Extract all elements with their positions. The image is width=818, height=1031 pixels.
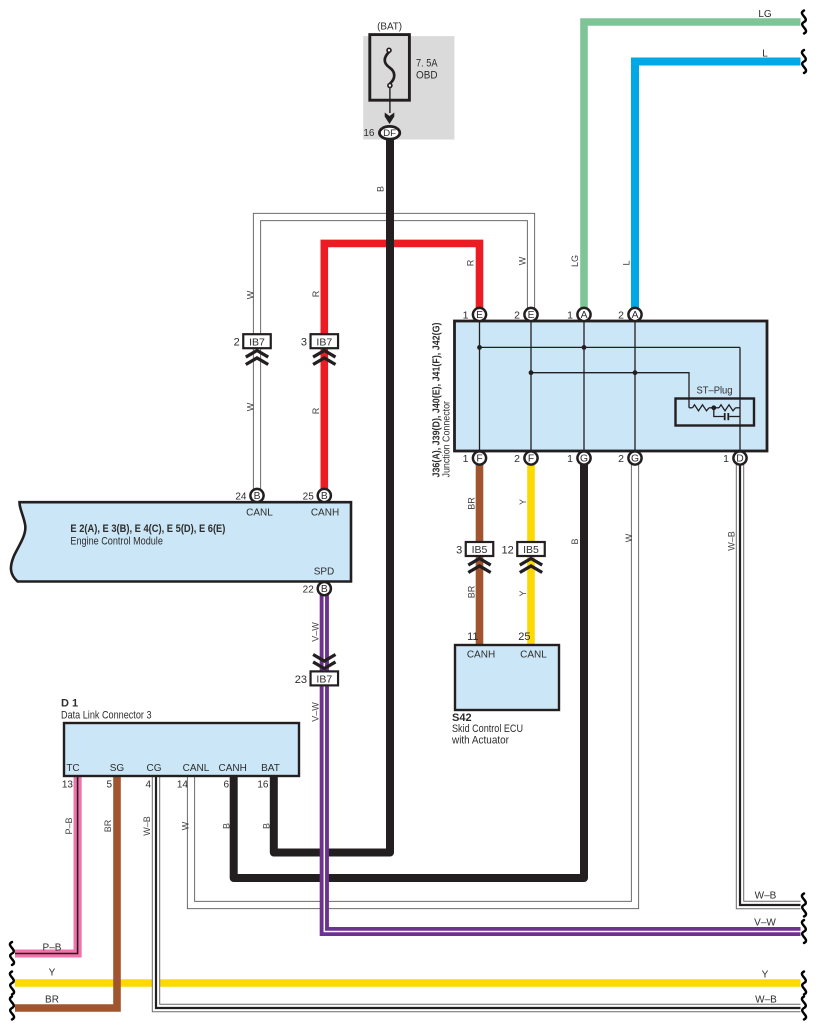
svg-text:W–B: W–B (142, 816, 152, 836)
svg-text:W: W (245, 402, 255, 411)
svg-text:6: 6 (223, 780, 229, 791)
svg-text:16: 16 (257, 780, 269, 791)
svg-text:E: E (528, 310, 535, 321)
svg-text:D: D (736, 453, 743, 464)
svg-text:2: 2 (514, 453, 520, 465)
svg-text:IB5: IB5 (472, 544, 488, 556)
svg-text:G: G (580, 453, 588, 464)
svg-text:W–B: W–B (726, 531, 736, 551)
svg-text:Y: Y (49, 968, 56, 979)
svg-text:V–W: V–W (310, 622, 320, 642)
svg-text:BR: BR (45, 995, 59, 1006)
svg-text:Skid Control ECU: Skid Control ECU (452, 723, 523, 735)
svg-text:CANH: CANH (311, 508, 339, 519)
svg-text:LG: LG (758, 9, 772, 20)
svg-text:D 1: D 1 (61, 698, 78, 710)
svg-text:CANL: CANL (246, 508, 273, 519)
svg-text:W–B: W–B (755, 891, 777, 902)
svg-text:B: B (570, 538, 580, 544)
svg-text:P–B: P–B (64, 817, 74, 834)
svg-text:2: 2 (514, 310, 520, 322)
svg-text:R: R (311, 290, 321, 297)
svg-text:IB5: IB5 (523, 544, 539, 556)
svg-text:16: 16 (363, 128, 375, 139)
svg-text:B: B (321, 584, 328, 595)
svg-text:B: B (375, 186, 385, 192)
svg-text:12: 12 (502, 544, 514, 556)
svg-text:BR: BR (466, 585, 476, 598)
svg-text:IB7: IB7 (316, 336, 332, 348)
svg-text:1: 1 (723, 453, 729, 465)
svg-text:CANL: CANL (183, 763, 210, 774)
svg-text:5: 5 (106, 780, 112, 791)
svg-text:Data Link Connector 3: Data Link Connector 3 (61, 710, 152, 722)
svg-text:4: 4 (145, 780, 151, 791)
svg-text:W–B: W–B (755, 995, 777, 1006)
svg-text:BAT: BAT (261, 763, 280, 774)
svg-text:25: 25 (518, 631, 530, 643)
svg-text:Engine Control Module: Engine Control Module (70, 536, 162, 548)
svg-text:2: 2 (234, 337, 240, 349)
svg-text:11: 11 (467, 631, 478, 643)
svg-text:Y: Y (518, 499, 528, 505)
svg-text:CANH: CANH (219, 763, 247, 774)
svg-text:F: F (528, 453, 534, 464)
svg-text:B: B (221, 823, 231, 829)
svg-text:W: W (624, 533, 634, 542)
svg-text:14: 14 (177, 780, 189, 791)
svg-text:B: B (254, 491, 261, 502)
svg-text:W: W (180, 821, 190, 830)
svg-text:1: 1 (463, 453, 469, 465)
svg-text:3: 3 (301, 337, 307, 349)
svg-text:BR: BR (466, 497, 476, 510)
svg-text:24: 24 (235, 492, 247, 503)
svg-text:1: 1 (567, 310, 573, 322)
svg-text:LG: LG (570, 255, 580, 267)
svg-text:W: W (245, 290, 255, 299)
svg-text:TC: TC (66, 763, 79, 774)
svg-text:E 2(A), E 3(B), E 4(C), E 5(D): E 2(A), E 3(B), E 4(C), E 5(D), E 6(E) (70, 523, 225, 535)
svg-text:V–W: V–W (310, 702, 320, 722)
svg-text:Y: Y (762, 970, 769, 981)
svg-text:L: L (762, 49, 768, 60)
svg-text:R: R (311, 407, 321, 414)
svg-text:E: E (476, 310, 483, 321)
svg-text:B: B (321, 491, 328, 502)
svg-text:G: G (631, 453, 639, 464)
svg-text:23: 23 (295, 674, 307, 686)
svg-text:V–W: V–W (754, 918, 776, 929)
svg-text:F: F (476, 453, 482, 464)
svg-text:2: 2 (618, 453, 624, 465)
svg-text:IB7: IB7 (316, 674, 332, 686)
svg-text:SPD: SPD (314, 567, 335, 578)
svg-text:(BAT): (BAT) (377, 21, 402, 33)
svg-text:P–B: P–B (43, 943, 62, 954)
svg-text:3: 3 (456, 544, 462, 556)
svg-text:ST–Plug: ST–Plug (697, 385, 733, 397)
svg-text:7. 5A: 7. 5A (416, 58, 438, 70)
svg-text:W: W (517, 256, 527, 265)
svg-text:with Actuator: with Actuator (451, 735, 509, 747)
svg-text:SG: SG (110, 763, 125, 774)
svg-text:22: 22 (303, 585, 315, 596)
svg-text:B: B (261, 823, 271, 829)
svg-text:L: L (621, 260, 631, 265)
svg-text:A: A (632, 310, 639, 321)
svg-text:Y: Y (518, 590, 528, 596)
svg-text:25: 25 (303, 492, 315, 503)
svg-text:13: 13 (62, 780, 74, 791)
svg-text:CANH: CANH (467, 650, 495, 661)
svg-text:Junction Connector: Junction Connector (441, 401, 453, 478)
svg-text:IB7: IB7 (249, 336, 265, 348)
svg-text:CANL: CANL (520, 650, 547, 661)
svg-text:OBD: OBD (416, 70, 438, 82)
svg-text:2: 2 (618, 310, 624, 322)
svg-text:R: R (465, 259, 475, 266)
svg-text:A: A (581, 310, 588, 321)
svg-text:1: 1 (463, 310, 469, 322)
svg-text:DF: DF (383, 128, 397, 138)
svg-text:BR: BR (103, 819, 113, 832)
svg-text:1: 1 (567, 453, 573, 465)
svg-text:CG: CG (147, 763, 162, 774)
